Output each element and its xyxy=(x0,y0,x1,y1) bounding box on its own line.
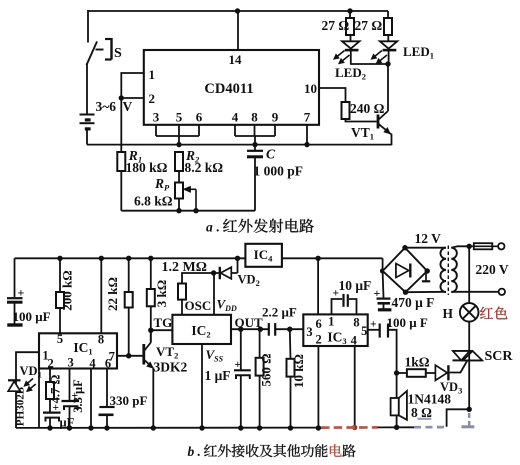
resistor R27a 27ohm xyxy=(346,11,354,35)
wire 240ohm to VT1 base xyxy=(346,119,377,122)
wire receiver ground rail xyxy=(16,426,414,429)
svg-text:RP: RP xyxy=(154,176,170,193)
label IC3 pin8 xyxy=(353,316,359,330)
svg-text:200 kΩ: 200 kΩ xyxy=(60,270,75,310)
ic U1 CD4011 body xyxy=(144,50,319,125)
transformer xyxy=(440,246,456,296)
capacitor 100uF output xyxy=(368,319,397,374)
transistor VT1 xyxy=(378,111,390,134)
wire bridge bottom to transformer xyxy=(406,291,447,293)
label 3DK2 xyxy=(154,360,188,375)
wire R2 to RP xyxy=(178,171,180,183)
node rail pin5 junction xyxy=(57,256,62,261)
label VT2 xyxy=(156,344,178,361)
terminal 220V top xyxy=(498,243,504,249)
capacitor-output to speaker node xyxy=(394,370,399,375)
label 10k xyxy=(291,354,306,388)
wire VSS to rail xyxy=(201,344,203,428)
svg-text:3 kΩ: 3 kΩ xyxy=(154,280,169,307)
svg-text:3: 3 xyxy=(67,356,73,370)
label pin 5 xyxy=(176,110,183,125)
node RP bottom junction xyxy=(176,208,181,213)
battery 3~6V xyxy=(80,99,133,129)
wire OUT segment xyxy=(231,328,303,330)
wire primary top xyxy=(451,246,469,247)
node rail IC3pin2 junction xyxy=(316,425,321,430)
wire switch drop xyxy=(87,10,89,43)
label red color xyxy=(480,307,507,320)
label pin 14 xyxy=(229,52,243,67)
svg-text:6.8 kΩ: 6.8 kΩ xyxy=(134,194,173,209)
label 1.2M xyxy=(162,260,207,275)
red dashed mark xyxy=(321,426,378,429)
node rail R2 junction xyxy=(176,142,181,147)
svg-text:VDD: VDD xyxy=(217,297,237,314)
svg-text:a: a xyxy=(206,220,213,235)
node bridge right xyxy=(425,268,430,273)
svg-text:12 V: 12 V xyxy=(415,231,442,246)
label IC1 xyxy=(73,340,92,357)
svg-text:3.3 μF: 3.3 μF xyxy=(71,379,85,413)
node rail 330pF junction xyxy=(104,425,109,430)
potentiometer RP xyxy=(175,183,196,211)
caption a transmitter xyxy=(206,219,314,235)
wire pin4 to rail xyxy=(90,369,92,429)
capacitor 1uF OUT xyxy=(234,329,251,428)
bridge rectifier xyxy=(383,248,431,293)
svg-text:22 kΩ: 22 kΩ xyxy=(105,277,120,311)
svg-text:1 000 pF: 1 000 pF xyxy=(254,164,304,179)
label VT1 xyxy=(351,125,374,142)
node rail VD2 junction xyxy=(235,256,240,261)
node 220 top junction xyxy=(467,244,472,249)
svg-text:6: 6 xyxy=(105,356,111,370)
ph302b module box xyxy=(16,352,39,428)
wire lamp to triac xyxy=(468,322,470,351)
label IC3 pin1 xyxy=(328,315,334,329)
label RP xyxy=(154,176,170,193)
capacitor C xyxy=(247,145,263,211)
svg-text:470 μ F: 470 μ F xyxy=(392,295,435,310)
svg-text:4: 4 xyxy=(351,334,358,348)
svg-text:8: 8 xyxy=(251,110,258,125)
wire triac L to rail xyxy=(447,409,470,427)
wire triac to bottom node xyxy=(468,360,470,409)
ic IC2 body xyxy=(172,315,231,344)
label IC3 xyxy=(327,330,346,347)
svg-text:100 μ F: 100 μ F xyxy=(387,315,428,330)
node rail pin7 junction xyxy=(304,142,309,147)
capacitor 2.2uF xyxy=(269,323,275,336)
label OSC xyxy=(185,298,212,313)
svg-text:10 kΩ: 10 kΩ xyxy=(291,354,306,388)
svg-text:3: 3 xyxy=(306,325,312,339)
label 1N4148 xyxy=(408,392,452,407)
transistor VT2 xyxy=(144,330,153,368)
node rail 1uF junction xyxy=(238,425,243,430)
label R2 xyxy=(185,148,200,165)
resistor R2 xyxy=(175,152,183,171)
node rail 22k junction xyxy=(126,256,131,261)
svg-text:1.2 MΩ: 1.2 MΩ xyxy=(162,260,207,275)
label R1 value xyxy=(126,160,168,175)
svg-text:.: . xyxy=(197,444,200,459)
node bridge top xyxy=(402,245,407,250)
svg-text:SCR: SCR xyxy=(485,349,514,364)
wire pin1 stub xyxy=(121,73,144,98)
node rail speaker junction xyxy=(394,425,399,430)
wire LED2 cathode to LED1 column xyxy=(351,63,388,65)
label pin 7 xyxy=(304,110,311,125)
diode VD3 xyxy=(435,365,449,380)
node rail 3.3uF junction xyxy=(67,425,72,430)
svg-text:5: 5 xyxy=(361,324,367,338)
photodiode VD1 xyxy=(8,379,36,392)
svg-text:5: 5 xyxy=(176,110,183,125)
wire IC3 pin6 to rail xyxy=(317,258,319,314)
node rail 3k junction xyxy=(148,256,153,261)
label R2 value xyxy=(185,160,224,175)
wire R1 to bottom wire xyxy=(120,171,122,211)
svg-text:VSS: VSS xyxy=(206,347,224,364)
label pin 9 xyxy=(272,110,279,125)
wire top supply rail xyxy=(88,10,388,12)
svg-text:1kΩ: 1kΩ xyxy=(405,355,430,370)
resistor R1 xyxy=(117,152,125,171)
label OUT xyxy=(235,315,264,330)
label IC3 pin3 xyxy=(306,325,312,339)
label IC1 pin4 xyxy=(89,356,96,370)
node rail VT2 junction xyxy=(151,425,156,430)
node rail pin4 junction xyxy=(88,425,93,430)
svg-text:7: 7 xyxy=(304,110,311,125)
svg-text:C: C xyxy=(266,147,276,162)
wire timing bottom xyxy=(121,210,255,212)
resistor 200k xyxy=(56,258,64,333)
label 22k xyxy=(105,277,120,311)
label pin 2 xyxy=(149,91,156,106)
node OUT 1uF junction xyxy=(238,327,243,332)
node TG junction xyxy=(148,328,153,333)
label IC1 pin7 xyxy=(109,350,115,364)
gate wire xyxy=(450,361,467,373)
label IC3 pin6 xyxy=(315,317,321,331)
wire receiver top rail xyxy=(15,257,383,259)
svg-text:180 kΩ: 180 kΩ xyxy=(126,160,168,175)
svg-text:VD2: VD2 xyxy=(238,273,260,289)
label 200k xyxy=(60,270,75,310)
svg-text:4: 4 xyxy=(232,110,239,125)
wire TG xyxy=(151,329,173,331)
capacitor 100uF input xyxy=(7,258,25,325)
label VDD xyxy=(217,297,237,314)
caption b receiver xyxy=(188,444,356,459)
node rail VSS junction xyxy=(199,425,204,430)
label CD4011 xyxy=(204,81,253,97)
label RP value xyxy=(134,194,173,209)
label IC1 pin3 xyxy=(67,356,73,370)
svg-text:8: 8 xyxy=(98,333,104,347)
label 240ohm xyxy=(350,101,385,116)
node top-rail LED2 branch junction xyxy=(347,8,352,13)
node pin1-pin2 junction xyxy=(119,95,124,100)
svg-text:27 Ω: 27 Ω xyxy=(322,18,350,33)
wire primary bottom xyxy=(451,291,498,293)
node wiper bottom junction xyxy=(193,208,198,213)
ic IC3 body xyxy=(303,314,367,346)
wire pin7 to base xyxy=(117,355,143,357)
diode VD2 xyxy=(214,258,238,279)
svg-text:560 Ω: 560 Ω xyxy=(259,353,274,386)
svg-text:240 Ω: 240 Ω xyxy=(350,101,385,116)
label IC3 pin4 xyxy=(351,334,358,348)
svg-text:.: . xyxy=(216,220,219,235)
capacitor 330pF pin6 xyxy=(99,369,115,429)
label 220V xyxy=(476,262,509,277)
svg-text:2.2 μF: 2.2 μF xyxy=(262,305,297,320)
label 1k xyxy=(405,355,430,370)
svg-text:S: S xyxy=(114,46,122,61)
label PH302B xyxy=(15,386,27,426)
svg-text:3~6: 3~6 xyxy=(96,99,117,114)
wire pins 3-5-6 bracket xyxy=(156,125,199,145)
label H xyxy=(443,306,454,321)
svg-text:14: 14 xyxy=(229,52,243,67)
wire LED junction to VT1 collector xyxy=(387,64,389,111)
label 1uF small xyxy=(60,416,75,430)
svg-text:CD4011: CD4011 xyxy=(204,81,253,97)
node LED junction xyxy=(385,61,390,66)
wire pin 10 to 240ohm xyxy=(319,88,346,102)
wire IC3 pin4 to rail xyxy=(354,346,356,428)
svg-text:3: 3 xyxy=(153,110,160,125)
node rail C junction xyxy=(252,142,257,147)
label 12V xyxy=(415,231,442,246)
svg-text:1 μF: 1 μF xyxy=(205,368,231,383)
capacitor 3.3uF pin3 xyxy=(62,369,80,429)
label C value xyxy=(254,164,304,179)
blue dashed mark xyxy=(414,413,474,427)
ic IC1 body xyxy=(39,333,117,368)
svg-text:10 μF: 10 μF xyxy=(339,278,372,293)
node rail IC3pin6 junction xyxy=(315,256,320,261)
wire RP to bottom wire xyxy=(178,199,180,211)
label IC1 pin1 xyxy=(42,349,48,363)
label 3.3uF xyxy=(71,379,85,413)
label 27ohm right xyxy=(355,18,383,33)
label SCR xyxy=(485,349,514,364)
resistor R27b 27ohm xyxy=(384,11,392,35)
capacitor 470uF xyxy=(374,271,392,310)
wire pins 4-8-9 bracket xyxy=(235,125,275,145)
wire bottom emitter rail xyxy=(87,144,392,146)
label IC3 pin5 xyxy=(361,324,367,338)
label IC1 pin5 xyxy=(57,332,63,346)
label LED2 xyxy=(335,65,366,82)
label 2.2uF xyxy=(262,305,297,320)
wire IC3 pin2 to rail xyxy=(317,346,319,428)
svg-text:OSC: OSC xyxy=(185,298,212,313)
svg-text:330 pF: 330 pF xyxy=(110,393,148,408)
label pin 4 xyxy=(232,110,239,125)
terminal 220V bottom xyxy=(499,289,505,295)
label 470uF xyxy=(392,295,435,310)
label IC3 pin2 xyxy=(315,333,321,347)
label pin 8 xyxy=(251,110,258,125)
svg-text:VT2: VT2 xyxy=(156,344,178,361)
node bridge left xyxy=(380,268,385,273)
label 1uF IC2 xyxy=(205,368,231,383)
wire VDD pin xyxy=(213,273,215,315)
resistor 1.2M xyxy=(178,273,214,300)
resistor 22k xyxy=(125,258,133,356)
label pin 1 xyxy=(149,67,156,82)
wire battery to bottom rail xyxy=(86,129,88,145)
wire pin 7 stub xyxy=(306,125,308,145)
node base junction xyxy=(126,353,131,358)
resistor 4.7ohm pin2 xyxy=(46,369,54,400)
label IC1 pin8 xyxy=(98,333,104,347)
fuse xyxy=(469,243,498,249)
label VD1 xyxy=(20,364,42,380)
node rail 10k junction xyxy=(288,425,293,430)
svg-text:V: V xyxy=(123,99,133,114)
svg-text:b: b xyxy=(188,444,195,459)
svg-text:VT1: VT1 xyxy=(351,125,374,142)
label IC2 xyxy=(191,323,210,340)
wire pin8 column xyxy=(100,258,102,333)
label LED1 xyxy=(403,44,434,61)
label 8ohm xyxy=(411,405,432,420)
capacitor below 4.7ohm xyxy=(43,399,61,428)
label VD3 xyxy=(440,380,462,396)
svg-text:3DK2: 3DK2 xyxy=(154,360,188,375)
switch S xyxy=(87,38,123,65)
wire bridge top to transformer xyxy=(405,247,446,249)
label 27ohm left xyxy=(322,18,350,33)
label IC1 pin6 xyxy=(105,356,111,370)
svg-text:LED1: LED1 xyxy=(403,44,434,61)
svg-text:+: + xyxy=(370,319,377,331)
wire OSC pin xyxy=(181,300,183,315)
svg-text:8: 8 xyxy=(353,316,359,330)
svg-text:10: 10 xyxy=(304,81,317,96)
LED2 xyxy=(334,35,360,65)
label TG xyxy=(154,315,173,330)
label 4.7ohm xyxy=(49,375,63,404)
label VSS xyxy=(206,347,224,364)
wire pin2 stub xyxy=(121,97,144,99)
svg-text:TG: TG xyxy=(154,315,173,330)
label pin 10 xyxy=(304,81,317,96)
wire VT2 emitter to rail xyxy=(152,368,154,429)
ic IC4 body xyxy=(245,244,282,267)
label VD2 xyxy=(238,273,260,289)
LED1 xyxy=(372,35,398,64)
label 3k xyxy=(154,280,169,307)
node rail 4.7 junction xyxy=(47,425,52,430)
node top-rail pin14 junction xyxy=(235,8,240,13)
svg-text:220 V: 220 V xyxy=(476,262,509,277)
resistor 10k xyxy=(287,329,295,428)
svg-text:9: 9 xyxy=(272,110,279,125)
svg-text:1: 1 xyxy=(149,67,156,82)
wire VT1 emitter to rail xyxy=(390,133,392,145)
label IC4 xyxy=(254,247,273,264)
resistor 1k xyxy=(397,369,436,377)
label 560 xyxy=(259,353,274,386)
wire input column to R1 xyxy=(120,98,122,152)
svg-text:8.2 kΩ: 8.2 kΩ xyxy=(185,160,224,175)
wire switch to battery xyxy=(86,64,88,114)
svg-text:4: 4 xyxy=(89,356,96,370)
node triac bottom junction xyxy=(467,407,472,412)
node rail 560 junction xyxy=(257,425,262,430)
resistor 3k xyxy=(147,258,155,342)
wire rail to bridge xyxy=(382,258,384,271)
svg-text:2: 2 xyxy=(47,356,53,370)
svg-text:5: 5 xyxy=(57,332,63,346)
label 100uF input xyxy=(13,309,51,324)
label pin 3 xyxy=(153,110,160,125)
svg-text:1: 1 xyxy=(328,315,334,329)
node rail pin8 junction xyxy=(99,256,104,261)
lamp H xyxy=(460,303,479,322)
label pin 6 xyxy=(196,110,203,125)
svg-text:2: 2 xyxy=(149,91,156,106)
wire pin 14 to rail xyxy=(237,11,239,50)
speaker 8ohm xyxy=(391,373,407,428)
label 100uF output xyxy=(387,315,428,330)
svg-text:2: 2 xyxy=(315,333,321,347)
node VDD junction xyxy=(211,270,216,275)
svg-text:6: 6 xyxy=(315,317,321,331)
label 330pF xyxy=(110,393,148,408)
node OUT 560 junction xyxy=(258,327,263,332)
svg-text:H: H xyxy=(443,306,454,321)
node rail IC3pin4 junction xyxy=(352,425,357,430)
svg-text:PH302B: PH302B xyxy=(15,386,27,426)
resistor 560 xyxy=(256,329,264,428)
svg-text:LED2: LED2 xyxy=(335,65,366,82)
resistor 240ohm xyxy=(342,102,350,119)
svg-text:6: 6 xyxy=(196,110,203,125)
label IC1 pin2 xyxy=(47,356,53,370)
svg-text:100 μF: 100 μF xyxy=(13,309,51,324)
triac SCR xyxy=(453,351,483,360)
label R1 xyxy=(128,148,142,165)
node bridge bottom xyxy=(403,290,408,295)
label C xyxy=(266,147,276,162)
node OUT 10k junction xyxy=(287,327,292,332)
label 10uF xyxy=(339,278,372,293)
wire 220 to lamp xyxy=(468,246,470,303)
capacitor 10uF xyxy=(332,288,357,315)
svg-text:27 Ω: 27 Ω xyxy=(355,18,383,33)
